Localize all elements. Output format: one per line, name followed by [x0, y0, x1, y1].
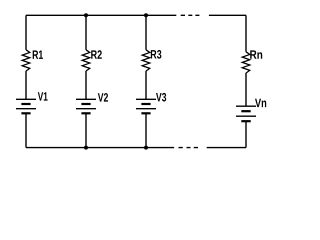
wire branch 1 bottom — [25, 113, 27, 147]
label V1 — [38, 92, 48, 100]
battery V2 — [76, 99, 96, 113]
node junction dot bottom rail branch 3 — [144, 146, 148, 150]
wire top rail solid left segment — [26, 14, 176, 16]
label R2 — [91, 50, 102, 59]
wire branch 3 middle — [145, 71, 147, 99]
wire branch 3 bottom — [145, 113, 147, 147]
label R1 — [33, 51, 43, 59]
label R3 — [151, 50, 162, 59]
battery Vn — [236, 106, 256, 121]
label Rn — [250, 50, 262, 58]
wire branch 3 top — [145, 15, 147, 50]
label V3 — [156, 93, 166, 102]
wire branch n bottom — [245, 121, 247, 147]
battery V3 — [136, 99, 156, 113]
resistor Rn — [242, 52, 250, 73]
wire branch 1 middle — [25, 71, 27, 99]
wire branch 2 bottom — [85, 113, 87, 147]
resistor R2 — [82, 50, 90, 71]
wire bottom rail solid left segment — [26, 147, 174, 149]
wire branch n middle — [245, 73, 247, 106]
wire bottom rail solid right segment — [207, 147, 246, 149]
wire branch 1 top — [25, 15, 27, 50]
node junction dot bottom rail branch 2 — [84, 146, 88, 150]
wire bottom rail dashed segment — [179, 147, 199, 149]
wire branch 2 top — [85, 15, 87, 50]
node junction dot top rail branch 2 — [84, 13, 88, 17]
wire top rail dashed segment — [181, 14, 200, 16]
wire top rail solid right segment — [209, 14, 246, 16]
label V2 — [98, 93, 108, 102]
wire branch 2 middle — [85, 71, 87, 99]
node junction dot top rail branch 3 — [144, 13, 148, 17]
battery V1 — [16, 99, 36, 113]
resistor R1 — [22, 50, 30, 71]
label Vn — [255, 99, 266, 107]
resistor R3 — [142, 50, 150, 71]
wire branch n top — [245, 15, 247, 52]
